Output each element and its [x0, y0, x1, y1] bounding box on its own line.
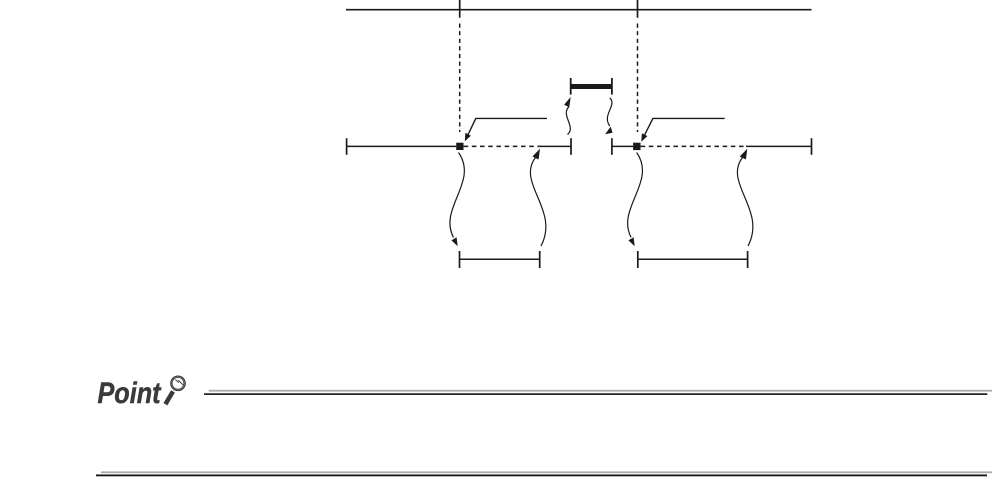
- svg-text:Point: Point: [98, 377, 163, 410]
